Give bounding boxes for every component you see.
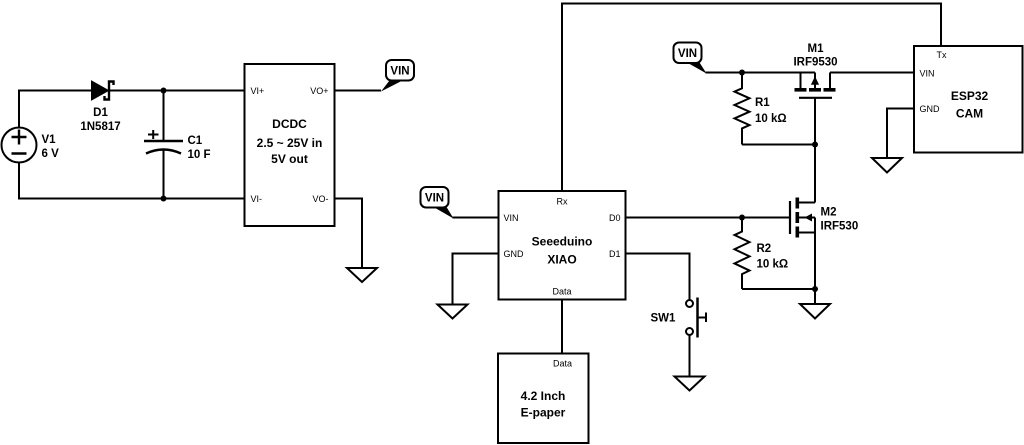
wire Seeeduino Data to E-paper [561, 300, 563, 354]
E-paper display box [498, 354, 589, 444]
wire V1 top to D1 anode [19, 91, 92, 128]
label C1 10 F [188, 135, 211, 161]
wire R2 bottom to M2 source node [742, 288, 815, 290]
wire flag to Seeeduino VIN [453, 217, 499, 219]
ESP32 CAM box [914, 46, 1023, 153]
svg-text:D1: D1 [93, 107, 108, 119]
svg-text:D0: D0 [609, 213, 621, 223]
svg-text:VIN: VIN [678, 48, 697, 60]
node junction R2 top [739, 215, 745, 221]
DCDC converter box [245, 64, 335, 226]
label D1 1N5817 [80, 107, 120, 133]
svg-text:2.5 ~ 25V in: 2.5 ~ 25V in [257, 136, 323, 150]
svg-text:GND: GND [504, 249, 525, 259]
svg-text:VIN: VIN [390, 66, 409, 78]
svg-text:VI+: VI+ [251, 86, 265, 96]
net flag VIN (at DCDC output) [381, 60, 414, 92]
ground (ESP32) [872, 158, 902, 173]
svg-text:R2: R2 [757, 243, 772, 255]
svg-text:M2: M2 [821, 207, 837, 219]
label M1 IRF9530 [793, 43, 837, 69]
label R1 10 kOhm [755, 97, 787, 125]
resistor R1 [735, 73, 750, 145]
label V1 6 V [42, 134, 60, 160]
wire D1 cathode to DCDC VI+ [109, 90, 245, 92]
svg-text:XIAO: XIAO [547, 253, 576, 267]
svg-text:C1: C1 [188, 135, 203, 147]
svg-text:CAM: CAM [956, 107, 983, 121]
svg-text:V1: V1 [42, 134, 57, 146]
svg-text:Data: Data [552, 287, 571, 297]
svg-text:VI-: VI- [251, 194, 263, 204]
wire R1 bottom to gate node [742, 144, 815, 146]
node junction R1 top [739, 70, 745, 76]
wire VIN flag to M1 source [706, 72, 816, 74]
wire Seeeduino GND down [453, 254, 499, 305]
svg-text:5V out: 5V out [271, 152, 308, 166]
svg-text:Seeeduino: Seeeduino [532, 235, 593, 249]
ground (SW1) [675, 377, 705, 391]
wire Seeeduino D1 to SW1 [626, 254, 690, 301]
wire Seeeduino Rx up and across to ESP32 Tx [562, 4, 941, 192]
ground (Seeeduino) [438, 305, 468, 319]
svg-text:VO-: VO- [312, 194, 328, 204]
svg-text:ESP32: ESP32 [951, 89, 989, 103]
wire node down to M2 drain [814, 145, 816, 203]
node junction M2 source / R2 [812, 286, 818, 292]
wire M1 drain to ESP32 VIN [830, 72, 914, 74]
svg-text:IRF9530: IRF9530 [793, 57, 837, 69]
net flag VIN (at M1) [674, 43, 707, 74]
transistor M2 (N-MOSFET, vertical) [790, 198, 815, 238]
svg-text:VIN: VIN [504, 213, 519, 223]
svg-text:10 kΩ: 10 kΩ [755, 113, 787, 125]
ground (M2 source) [800, 304, 830, 319]
svg-text:VIN: VIN [920, 69, 935, 79]
svg-text:M1: M1 [808, 43, 825, 55]
svg-text:Tx: Tx [937, 50, 947, 60]
wire DCDC VO- down [335, 199, 363, 269]
net flag VIN (at Seeeduino) [421, 187, 454, 219]
svg-text:10 kΩ: 10 kΩ [757, 259, 789, 271]
wire SW1 to ground [689, 335, 691, 377]
svg-text:6 V: 6 V [42, 148, 60, 160]
svg-text:GND: GND [920, 104, 941, 114]
wire DCDC VO+ to VIN flag [335, 90, 382, 92]
svg-text:E-paper: E-paper [521, 406, 566, 420]
node junction M1 gate / M2 drain [812, 142, 818, 148]
svg-text:SW1: SW1 [651, 313, 677, 325]
label R2 10 kOhm [757, 243, 789, 271]
svg-text:10 F: 10 F [188, 149, 211, 161]
switch SW1 [686, 298, 706, 338]
wire V1 bottom to DCDC VI- [19, 163, 245, 199]
label M2 IRF530 [821, 207, 859, 233]
wire ESP32 GND down [887, 109, 914, 159]
svg-text:D1: D1 [609, 249, 621, 259]
transistor M1 (P-MOSFET, horizontal) [795, 73, 836, 98]
svg-text:IRF530: IRF530 [821, 221, 859, 233]
voltage source V1 [2, 128, 37, 163]
ground (DCDC VO-) [347, 268, 377, 282]
diode D1 (schottky) [92, 81, 114, 100]
capacitor C1 [144, 91, 183, 199]
wire M2 source down [814, 233, 816, 305]
wire M1 gate down to node [814, 98, 816, 145]
svg-text:Rx: Rx [557, 197, 568, 207]
Seeeduino XIAO box [499, 191, 626, 300]
svg-text:1N5817: 1N5817 [80, 121, 120, 133]
resistor R2 [735, 218, 750, 290]
svg-text:4.2 Inch: 4.2 Inch [521, 389, 566, 403]
svg-text:Data: Data [553, 359, 572, 369]
svg-text:VO+: VO+ [310, 86, 328, 96]
node junction cap top [161, 88, 167, 94]
svg-text:VIN: VIN [425, 193, 444, 205]
svg-text:DCDC: DCDC [272, 117, 307, 131]
node junction cap bottom [161, 196, 167, 202]
wire Seeeduino D0 to M2 gate [626, 217, 791, 219]
svg-text:R1: R1 [755, 97, 770, 109]
